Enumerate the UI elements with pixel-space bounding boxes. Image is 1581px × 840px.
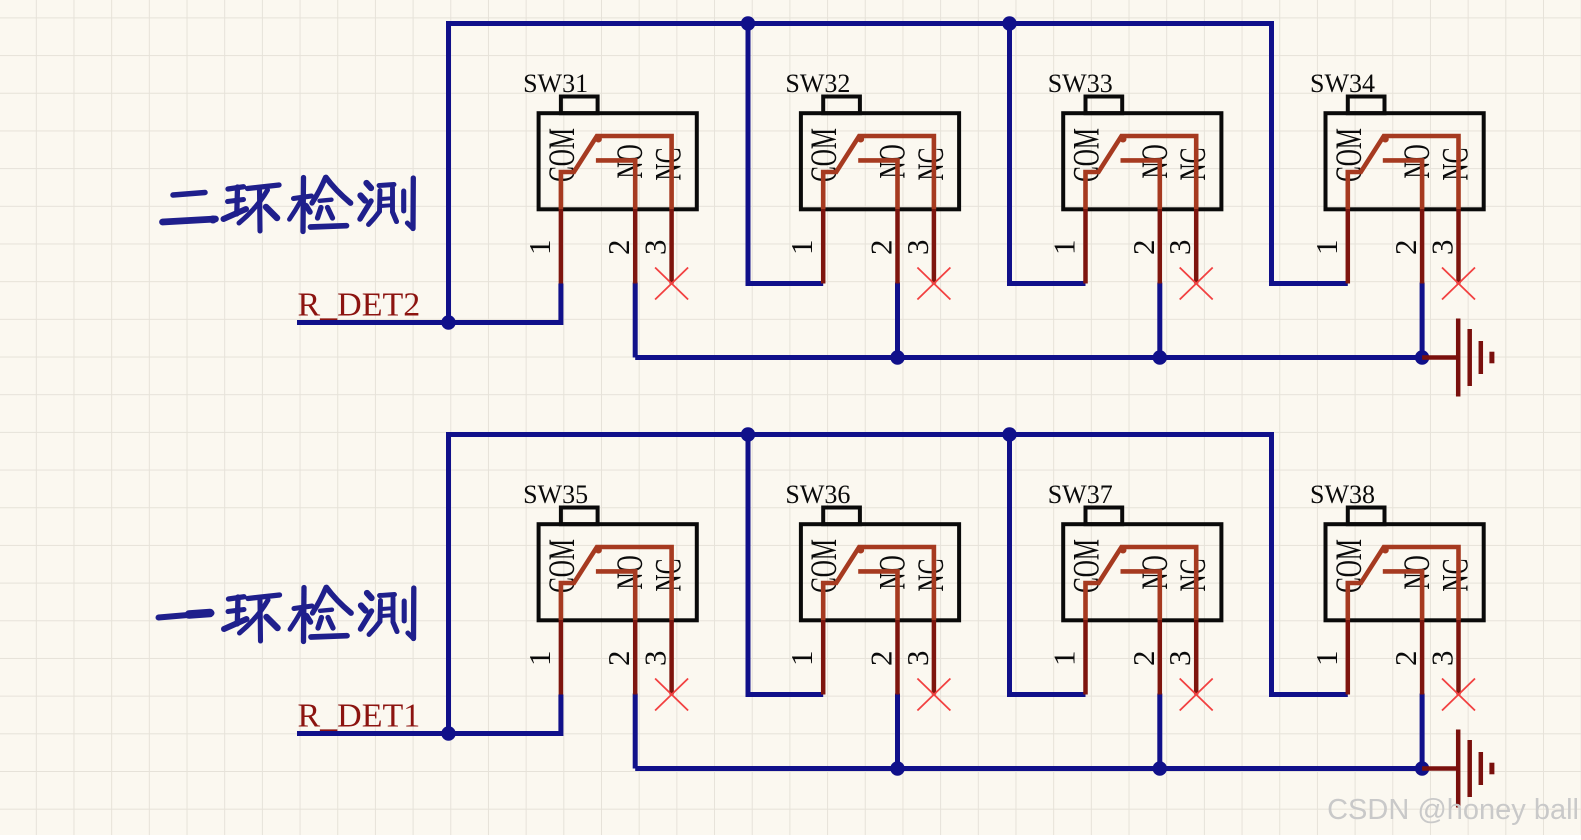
wire: SW35 pin 2 to ground bus (633, 694, 638, 769)
pin 2 of SW35 (633, 620, 638, 694)
pin 3 of SW37 (1194, 620, 1199, 694)
actuator tab of SW34 (1348, 97, 1385, 114)
pin 3 of SW31 (669, 209, 674, 283)
switch lever and NC contact path of SW34 (1348, 136, 1459, 210)
switch lever and NC contact path of SW37 (1086, 547, 1197, 621)
NO contact path of SW31 (596, 160, 635, 209)
svg-text:NC: NC (1172, 559, 1214, 592)
svg-text:SW34: SW34 (1310, 69, 1375, 98)
switch lever and NC contact path of SW35 (561, 547, 672, 621)
no-ERC cross marker on pin 3 of SW34 (1442, 268, 1475, 300)
pin 3 of SW32 (932, 209, 937, 283)
wire: ground bus bottom rail (635, 355, 1422, 360)
switch SW38 (SPDT microswitch) (1309, 480, 1484, 710)
wire: SW32 pin 2 to ground bus (895, 283, 900, 358)
svg-text:1: 1 (522, 240, 557, 256)
wire: SW33 pin 2 to ground bus (1157, 283, 1162, 358)
svg-text:3: 3 (638, 651, 673, 667)
svg-text:CSDN @honey ball: CSDN @honey ball (1327, 794, 1579, 826)
wire: SW37 pin 2 to ground bus (1157, 694, 1162, 769)
wire: net label stub R_DET1 (297, 731, 449, 736)
heading: 一环检测 (first-loop detection) (159, 588, 414, 642)
body outline of SW32 (801, 113, 959, 209)
wire: drop to SW36 pin 1 (748, 435, 823, 695)
body outline of SW35 (539, 524, 697, 620)
svg-text:1: 1 (1309, 240, 1344, 256)
wire: SW35 pin 1 to net stub (449, 695, 561, 734)
pin 3 of SW35 (669, 620, 674, 694)
pin 2 of SW36 (895, 620, 900, 694)
pin 2 of SW32 (895, 209, 900, 283)
switch SW33 (SPDT microswitch) (1047, 69, 1222, 299)
svg-text:3: 3 (1425, 651, 1460, 667)
svg-text:1: 1 (522, 651, 557, 667)
actuator tab of SW33 (1086, 97, 1123, 114)
body outline of SW31 (539, 113, 697, 209)
wire: drop to SW37 pin 1 (1010, 435, 1086, 695)
ground symbol (1422, 730, 1492, 808)
switch SW34 (SPDT microswitch) (1309, 69, 1484, 299)
actuator tab of SW31 (561, 97, 598, 114)
wire: SW38 pin 2 to ground bus (1420, 694, 1425, 769)
svg-text:1: 1 (1047, 240, 1082, 256)
pin 2 of SW37 (1158, 620, 1163, 694)
wire: R_DET2 bus top rail with end drops (449, 24, 1348, 323)
pin 3 of SW38 (1456, 620, 1461, 694)
switch lever and NC contact path of SW31 (561, 136, 672, 210)
svg-text:1: 1 (784, 651, 819, 667)
pin 2 of SW38 (1420, 620, 1425, 694)
pin 1 of SW38 (1346, 620, 1351, 694)
NO contact path of SW38 (1383, 571, 1422, 620)
switch SW35 (SPDT microswitch) (522, 480, 697, 710)
NO contact path of SW35 (596, 571, 635, 620)
switch lever and NC contact path of SW33 (1086, 136, 1197, 210)
NO contact path of SW36 (858, 571, 897, 620)
junction: ground bus below SW38 (1415, 761, 1429, 775)
junction: top rail at drop 2 (741, 427, 755, 441)
svg-text:3: 3 (900, 651, 935, 667)
svg-text:3: 3 (638, 240, 673, 256)
junction: top rail at drop 3 (1002, 427, 1016, 441)
svg-text:NC: NC (1434, 148, 1476, 181)
pin 2 of SW34 (1420, 209, 1425, 283)
pin 1 of SW33 (1083, 209, 1088, 283)
pin 2 of SW31 (633, 209, 638, 283)
no-ERC cross marker on pin 3 of SW37 (1180, 679, 1213, 711)
pin 1 of SW35 (559, 620, 564, 694)
pin 1 of SW36 (821, 620, 826, 694)
svg-text:R_DET1: R_DET1 (298, 698, 421, 735)
NO contact path of SW33 (1121, 160, 1160, 209)
switch SW36 (SPDT microswitch) (784, 480, 959, 710)
svg-text:NC: NC (910, 148, 952, 181)
svg-text:2: 2 (1388, 651, 1423, 667)
body outline of SW34 (1326, 113, 1484, 209)
junction: ground bus below SW34 (1415, 350, 1429, 364)
wire: SW34 pin 2 to ground bus (1420, 283, 1425, 358)
svg-text:NC: NC (647, 148, 689, 181)
switch SW37 (SPDT microswitch) (1047, 480, 1222, 710)
wire: R_DET1 bus top rail with end drops (449, 435, 1348, 734)
junction: R_DET2 node (441, 315, 455, 329)
actuator tab of SW38 (1348, 508, 1385, 525)
svg-text:NC: NC (1434, 559, 1476, 592)
svg-text:NC: NC (1172, 148, 1214, 181)
svg-text:1: 1 (1047, 651, 1082, 667)
switch SW32 (SPDT microswitch) (784, 69, 959, 299)
svg-text:SW32: SW32 (785, 69, 850, 98)
wire: SW31 pin 2 to ground bus (633, 283, 638, 358)
junction: R_DET1 node (441, 726, 455, 740)
svg-text:NC: NC (647, 559, 689, 592)
wire: drop to SW33 pin 1 (1010, 24, 1086, 284)
svg-text:3: 3 (1425, 240, 1460, 256)
svg-text:2: 2 (864, 240, 899, 256)
pin 1 of SW32 (821, 209, 826, 283)
switch lever and NC contact path of SW32 (823, 136, 934, 210)
body outline of SW33 (1063, 113, 1221, 209)
junction: ground bus below SW36 (890, 761, 904, 775)
junction: ground bus below SW32 (890, 350, 904, 364)
pin 1 of SW34 (1346, 209, 1351, 283)
body outline of SW38 (1326, 524, 1484, 620)
svg-text:2: 2 (1126, 651, 1161, 667)
svg-text:SW38: SW38 (1310, 480, 1375, 509)
junction: top rail at drop 2 (741, 16, 755, 30)
no-ERC cross marker on pin 3 of SW33 (1180, 268, 1213, 300)
body outline of SW37 (1063, 524, 1221, 620)
pin 1 of SW31 (559, 209, 564, 283)
wire: drop to SW32 pin 1 (748, 24, 823, 284)
svg-text:R_DET2: R_DET2 (298, 287, 421, 324)
svg-text:SW36: SW36 (785, 480, 850, 509)
wire: SW31 pin 1 to net stub (449, 284, 561, 323)
switch lever and NC contact path of SW36 (823, 547, 934, 621)
svg-text:1: 1 (784, 240, 819, 256)
svg-text:3: 3 (1162, 240, 1197, 256)
NO contact path of SW34 (1383, 160, 1422, 209)
no-ERC cross marker on pin 3 of SW38 (1442, 679, 1475, 711)
svg-text:3: 3 (1162, 651, 1197, 667)
junction: top rail at drop 3 (1002, 16, 1016, 30)
actuator tab of SW37 (1086, 508, 1123, 525)
NO contact path of SW37 (1121, 571, 1160, 620)
svg-text:2: 2 (601, 651, 636, 667)
no-ERC cross marker on pin 3 of SW35 (655, 679, 688, 711)
svg-text:2: 2 (601, 240, 636, 256)
svg-text:NC: NC (910, 559, 952, 592)
pin 2 of SW33 (1158, 209, 1163, 283)
junction: ground bus below SW37 (1153, 761, 1167, 775)
body outline of SW36 (801, 524, 959, 620)
svg-text:SW37: SW37 (1048, 480, 1113, 509)
actuator tab of SW32 (823, 97, 860, 114)
wire: SW36 pin 2 to ground bus (895, 694, 900, 769)
no-ERC cross marker on pin 3 of SW36 (917, 679, 950, 711)
ground symbol (1422, 319, 1492, 397)
pin 3 of SW36 (932, 620, 937, 694)
svg-text:SW35: SW35 (523, 480, 588, 509)
switch SW31 (SPDT microswitch) (522, 69, 697, 299)
svg-text:3: 3 (900, 240, 935, 256)
pin 3 of SW33 (1194, 209, 1199, 283)
svg-text:2: 2 (1126, 240, 1161, 256)
junction: ground bus below SW33 (1153, 350, 1167, 364)
wire: net label stub R_DET2 (297, 320, 449, 325)
no-ERC cross marker on pin 3 of SW31 (655, 268, 688, 300)
actuator tab of SW36 (823, 508, 860, 525)
svg-text:SW31: SW31 (523, 69, 588, 98)
no-ERC cross marker on pin 3 of SW32 (917, 268, 950, 300)
svg-text:2: 2 (864, 651, 899, 667)
svg-text:1: 1 (1309, 651, 1344, 667)
actuator tab of SW35 (561, 508, 598, 525)
switch lever and NC contact path of SW38 (1348, 547, 1459, 621)
NO contact path of SW32 (858, 160, 897, 209)
pin 1 of SW37 (1083, 620, 1088, 694)
pin 3 of SW34 (1456, 209, 1461, 283)
wire: ground bus bottom rail (635, 766, 1422, 771)
svg-text:2: 2 (1388, 240, 1423, 256)
svg-text:SW33: SW33 (1048, 69, 1113, 98)
heading: 二环检测 (second-loop detection) (163, 178, 414, 232)
